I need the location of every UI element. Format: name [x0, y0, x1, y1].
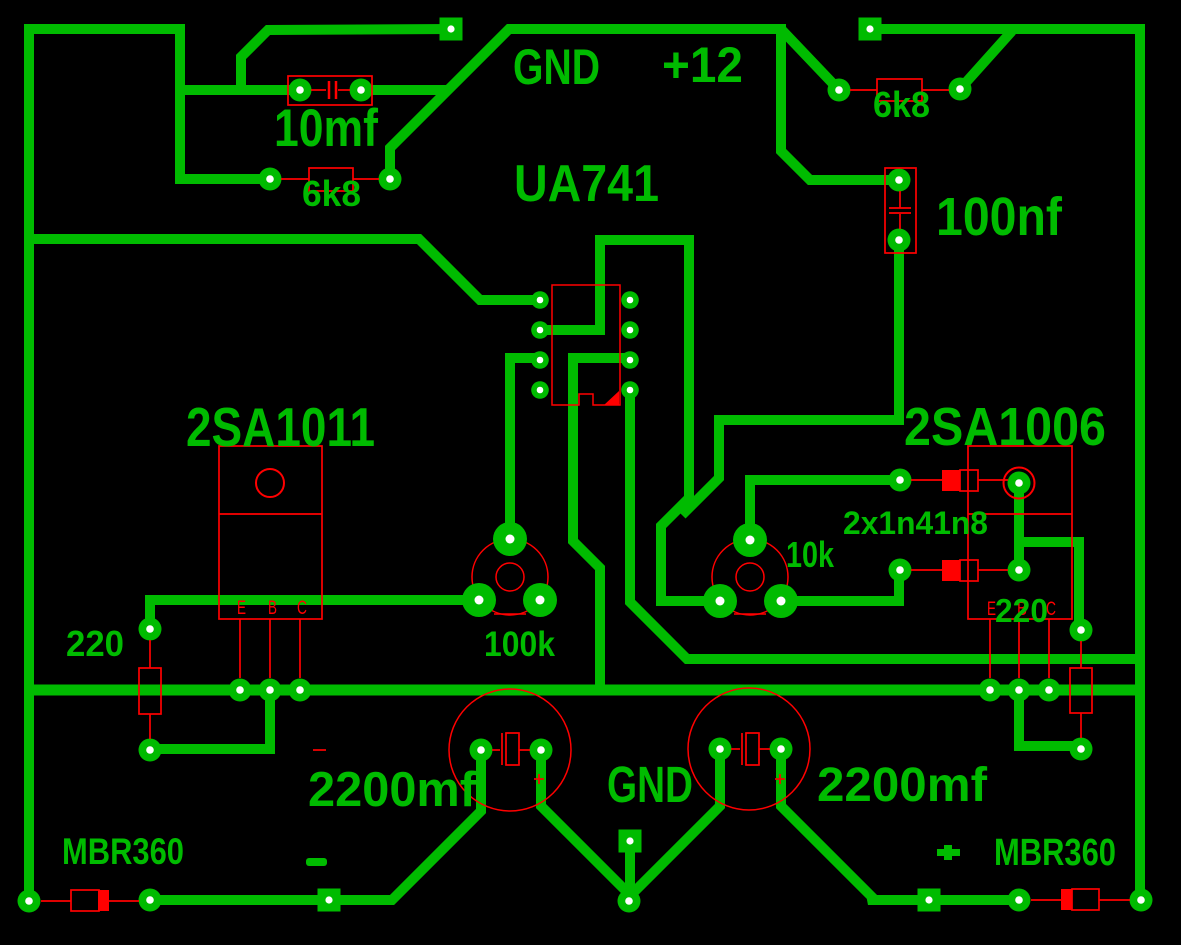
label MBR360 right — [994, 832, 1116, 874]
pad U1-8 — [621, 291, 639, 309]
diode D2 body — [960, 560, 978, 581]
label Q2 C — [1046, 599, 1056, 620]
wire 10mf right pad to diagonal junction — [361, 85, 446, 95]
pad Q2-E — [979, 679, 1002, 702]
transistor Q1 lead C — [299, 619, 301, 678]
svg-text:GND: GND — [607, 756, 693, 813]
wire y239 GND feed to UA741 pad1 — [29, 239, 540, 300]
capacitor C4 plate1 — [741, 733, 743, 765]
transistor Q1 mounting hole — [256, 469, 284, 497]
wire GND square pad stub — [625, 846, 635, 901]
label 2SA1011 — [186, 396, 375, 458]
capacitor C4 plate2 — [746, 733, 759, 765]
pad D2-A — [889, 559, 912, 582]
capacitor C1 plate1 — [328, 81, 331, 99]
op-amp U1 pin1 triangle — [604, 391, 619, 405]
wire diagonal branch to 6k8R right pad — [960, 31, 1012, 89]
capacitor C2 lead1 — [899, 191, 901, 208]
capacitor C3 plate2 — [506, 733, 519, 765]
label 100k — [484, 625, 555, 664]
label 220 left — [66, 623, 124, 664]
svg-text:E: E — [237, 598, 246, 619]
label 10k — [786, 534, 835, 575]
capacitor C2 100nf outline — [885, 168, 916, 253]
label Q1 C — [297, 598, 307, 619]
wire 10k top pad to diode D1 pad — [750, 480, 899, 540]
label GND top — [513, 39, 600, 95]
capacitor C4 plus-v — [779, 774, 781, 784]
wire cap1 right pad to GND pad — [541, 750, 629, 901]
pad 220L-1 — [139, 618, 162, 641]
svg-text:220: 220 — [995, 592, 1048, 629]
pad D1-K — [1008, 472, 1031, 495]
wire 10k right pad to diode D2 pad — [781, 570, 899, 601]
pad D2-K — [1008, 559, 1031, 582]
resistor R3 220L outline — [139, 668, 161, 714]
diode D3 body — [71, 890, 99, 911]
pad MBR360L-K — [139, 889, 162, 912]
diode D1 cathode band — [942, 470, 960, 491]
label +12 — [662, 37, 743, 93]
label Q1 E — [237, 598, 246, 619]
capacitor C3 2200mf outline — [449, 689, 571, 811]
pad GND-bottom — [618, 890, 641, 913]
trimmer P2 10k outline — [712, 539, 788, 615]
svg-text:GND: GND — [513, 39, 600, 95]
pad square GND out — [619, 830, 642, 853]
wire 6k8L right pad diagonal to top rail — [390, 29, 781, 179]
wire +12 rail square pad to right edge down — [870, 29, 1140, 900]
transistor Q1 lead B — [269, 619, 271, 678]
wire diagonal branch to 6k8R left pad — [780, 28, 839, 90]
label Q2 E — [987, 599, 996, 620]
wire 2SA1006 collector link — [1014, 483, 1024, 570]
wire 2SA1011 base to 220L bottom pad — [150, 690, 270, 749]
pad 100k-top — [493, 522, 527, 556]
pad U1-1 — [531, 291, 549, 309]
capacitor C1 symbol lead — [311, 89, 326, 91]
wire branch y90 to 10mf left pad — [180, 85, 300, 95]
pad 100nf-2 — [888, 229, 911, 252]
pad square +12 in — [859, 18, 882, 41]
capacitor C4 plus-h — [775, 778, 785, 780]
pad 10mf-1 — [289, 79, 312, 102]
pad square node A — [440, 18, 463, 41]
label Q2 B — [1017, 599, 1027, 620]
label 6k8 left — [302, 173, 361, 214]
pad 10k-right — [764, 584, 798, 618]
svg-text:10k: 10k — [786, 534, 835, 575]
trimmer P1 100k outline — [472, 539, 548, 615]
label 2SA1006 — [904, 397, 1106, 457]
capacitor C3 lead3 — [519, 749, 530, 751]
pad 10mf-2 — [350, 79, 373, 102]
wire top rail down to 100nf top pad — [781, 24, 899, 180]
label 2200mf right — [817, 759, 988, 812]
transistor Q2 lead B — [1018, 619, 1020, 678]
resistor R1 lead2 — [353, 178, 379, 180]
svg-text:MBR360: MBR360 — [994, 832, 1116, 874]
diode D3 MBR360L lead1 — [41, 900, 71, 902]
pad 220R-2 — [1070, 738, 1093, 761]
svg-text:6k8: 6k8 — [302, 173, 361, 214]
wire UA741 pad2 U-loop to 10k left pad — [540, 240, 720, 601]
pad MBR360L-A — [18, 890, 41, 913]
label Q1 B — [268, 598, 277, 619]
pad U1-7 — [621, 321, 639, 339]
wire GND-rail top-left L — [29, 29, 180, 901]
pad Q1-E — [229, 679, 252, 702]
pad 6k8L-2 — [379, 168, 402, 191]
resistor R3 lead1 — [149, 640, 151, 668]
svg-text:6k8: 6k8 — [873, 84, 930, 125]
wire left vertical branch to 6k8L — [180, 24, 270, 179]
svg-text:UA741: UA741 — [514, 155, 659, 213]
pad 100nf-1 — [888, 169, 911, 192]
capacitor C3 lead1 — [313, 749, 326, 751]
wire 2SA1006 base to 220R bottom pad — [1019, 690, 1079, 746]
transistor Q2 lead C — [1048, 619, 1050, 678]
pad 100k-right — [523, 583, 557, 617]
diode D3 lead2 — [109, 900, 139, 902]
pad C3-minus — [470, 739, 493, 762]
diode D2 cathode band — [942, 560, 960, 581]
resistor R1 6k8L outline — [309, 168, 353, 191]
pad Q2-C — [1038, 679, 1061, 702]
capacitor C1 symbol lead2 — [338, 89, 350, 91]
pad U1-5 — [621, 381, 639, 399]
label UA741 — [514, 155, 659, 213]
capacitor C4 lead2 — [731, 748, 740, 750]
diode D4 cathode band — [1061, 889, 1072, 910]
pad MBR360R-A — [1008, 889, 1031, 912]
pad 6k8L-1 — [259, 168, 282, 191]
svg-text:220: 220 — [66, 623, 124, 664]
svg-text:10mf: 10mf — [274, 99, 378, 158]
op-amp U1 UA741 outline — [552, 285, 620, 405]
diode D4 MBR360R lead1 — [1031, 899, 1061, 901]
wire UA741 pad3 to 100k top pad — [510, 358, 540, 539]
svg-text:2SA1011: 2SA1011 — [186, 396, 375, 458]
pad U1-2 — [531, 321, 549, 339]
transistor Q1 tab divider — [219, 513, 322, 515]
resistor R4 lead1 — [1080, 641, 1082, 668]
pad Q1-C — [289, 679, 312, 702]
wire ground bus y690 — [29, 685, 1140, 696]
diode D1 lead1 — [911, 479, 943, 481]
wire stub up from y90 to square pad A — [241, 29, 451, 95]
diode D2 lead2 — [978, 569, 1008, 571]
svg-text:100k: 100k — [484, 625, 555, 664]
diode D4 body — [1072, 889, 1099, 910]
resistor R2 6k8R outline — [877, 79, 922, 101]
resistor R4 lead2 — [1080, 713, 1082, 738]
pad 220R-1 — [1070, 619, 1093, 642]
wire UA741 pad5 to y659 rail — [630, 390, 1140, 659]
transistor Q1 lead E — [239, 619, 241, 678]
resistor R2 lead1 — [850, 89, 877, 91]
capacitor C2 lead2 — [899, 214, 901, 229]
svg-text:2200mf: 2200mf — [817, 759, 988, 812]
resistor R3 lead2 — [149, 714, 151, 739]
wire 2SA1006 link to 220R top pad — [1019, 542, 1079, 631]
label GND bottom — [607, 756, 693, 813]
capacitor C3 plus-h — [534, 778, 544, 780]
label plus — [937, 845, 960, 860]
pad 6k8R-2 — [949, 78, 972, 101]
capacitor C2 plate2 — [889, 212, 911, 214]
label 220 right — [995, 592, 1048, 629]
transistor Q2 mounting hole — [1004, 468, 1035, 499]
wire 100nf bottom to merge junction — [682, 240, 899, 515]
pad 6k8R-1 — [828, 79, 851, 102]
transistor Q2 2SA1006 body — [968, 446, 1072, 619]
svg-text:+12: +12 — [662, 37, 743, 93]
wire UA741 pad6 down to ground bus — [573, 358, 630, 695]
pad D1-A — [889, 469, 912, 492]
transistor Q2 tab divider — [968, 513, 1072, 515]
label MBR360 left — [62, 831, 184, 872]
wire minus rail MBR360L to cap1 left — [150, 750, 481, 900]
pad 10k-top — [733, 523, 767, 557]
resistor R2 lead2 — [922, 89, 949, 91]
label 6k8 right — [873, 84, 930, 125]
diode D1 lead2 — [978, 479, 1008, 481]
wire cap2 left pad to GND pad — [629, 749, 720, 897]
capacitor C3 lead2 — [492, 749, 500, 751]
pad square plus out — [918, 889, 941, 912]
capacitor C1 plate2 — [335, 81, 338, 99]
pad MBR360R-K — [1130, 889, 1153, 912]
svg-text:2SA1006: 2SA1006 — [904, 397, 1106, 457]
capacitor C1 10mf outline — [288, 76, 372, 105]
label 2x1n41n8 — [843, 505, 988, 541]
svg-text:C: C — [297, 598, 307, 619]
wire 220L top pad to 100k left pad — [150, 600, 479, 629]
label 10mf — [274, 99, 378, 158]
pad 100k-left — [462, 583, 496, 617]
capacitor C3 plate1 — [501, 733, 503, 765]
wire cap2 right pad to plus rail — [781, 749, 1019, 900]
diode D1 body — [960, 470, 978, 491]
pad U1-3 — [531, 351, 549, 369]
svg-text:2200mf: 2200mf — [308, 763, 477, 817]
svg-text:MBR360: MBR360 — [62, 831, 184, 872]
diode D4 lead2 — [1099, 899, 1130, 901]
capacitor C4 lead3 — [759, 748, 770, 750]
diode D3 cathode band — [98, 890, 109, 911]
svg-text:100nf: 100nf — [936, 187, 1063, 247]
resistor R1 lead1 — [281, 178, 309, 180]
pad U1-4 — [531, 381, 549, 399]
pad C4-plus — [770, 738, 793, 761]
label 2200mf left — [308, 763, 477, 817]
svg-text:B: B — [268, 598, 277, 619]
capacitor C4 2200mf outline — [688, 688, 810, 810]
pad Q1-B — [259, 679, 282, 702]
label minus — [306, 858, 327, 866]
svg-text:2x1n41n8: 2x1n41n8 — [843, 505, 988, 541]
transistor Q1 2SA1011 body — [219, 446, 322, 619]
diode D2 lead1 — [911, 569, 943, 571]
pad 10k-left — [703, 584, 737, 618]
label 100nf — [936, 187, 1063, 247]
resistor R4 220R outline — [1070, 668, 1092, 713]
pad C4-minus — [709, 738, 732, 761]
pad Q2-B — [1008, 679, 1031, 702]
pad C3-plus — [530, 739, 553, 762]
capacitor C2 plate1 — [889, 207, 911, 209]
capacitor C3 plus-v — [538, 774, 540, 784]
pad U1-6 — [621, 351, 639, 369]
pad square minus out — [318, 889, 341, 912]
transistor Q2 lead E — [989, 619, 991, 678]
pad 220L-2 — [139, 739, 162, 762]
